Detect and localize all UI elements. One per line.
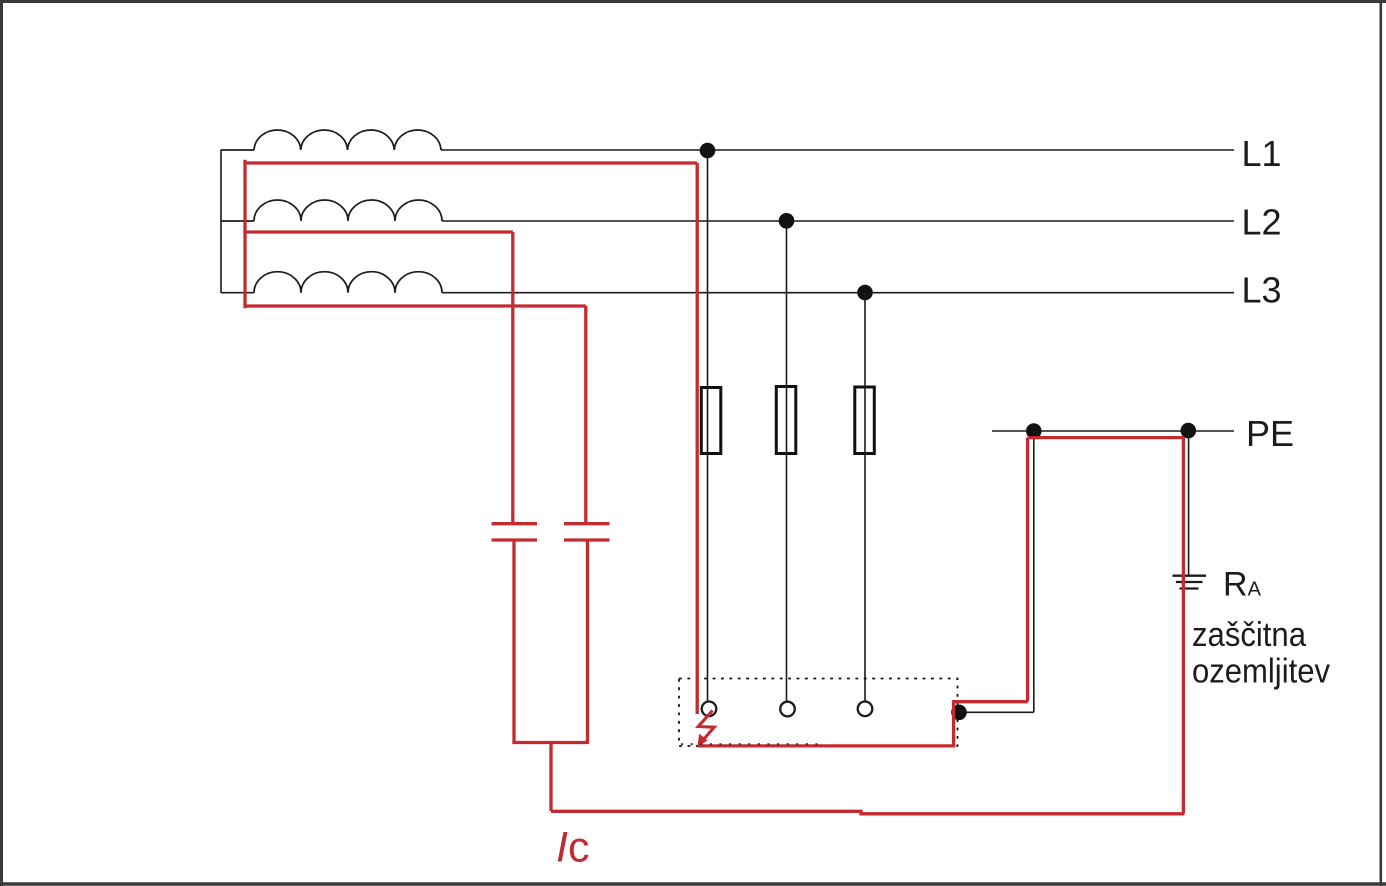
winding W1 (L1 secondary coil) xyxy=(221,130,441,150)
wire red earth riser xyxy=(1182,438,1185,814)
wire L3 line xyxy=(442,292,1234,294)
fuse F3 xyxy=(855,387,875,454)
wire red PE drop xyxy=(1026,438,1029,702)
terminal 3 circle xyxy=(858,702,873,717)
svg-text:ozemljitev: ozemljitev xyxy=(1192,653,1330,691)
winding W2 (L2 secondary coil) xyxy=(221,200,442,221)
node L3 tap junction dot xyxy=(857,285,873,301)
wire Ic bottom return xyxy=(551,811,1184,814)
ground electrode symbol xyxy=(1173,576,1207,589)
wire L3 drop to fuse F3 xyxy=(864,293,866,702)
winding W3 (L3 secondary coil) xyxy=(221,272,442,293)
wire PE line xyxy=(992,430,1234,432)
left bus vertical wire xyxy=(220,150,222,294)
wire C2 bottom lead xyxy=(586,540,589,743)
appliance enclosure (dotted box) xyxy=(679,679,958,747)
svg-text:L1: L1 xyxy=(1242,133,1282,174)
appliance enclosure bottom dotted edge (over red) xyxy=(681,743,822,745)
node PE junction dot B xyxy=(1181,423,1197,439)
svg-text:zaščitna: zaščitna xyxy=(1192,616,1306,654)
wire capacitor bottom bar xyxy=(512,741,589,744)
wire red chassis horizontal xyxy=(954,700,1028,703)
fault arrow head xyxy=(697,734,707,747)
terminal 1 circle xyxy=(702,702,717,717)
wire L1 line xyxy=(441,149,1234,151)
wire L2 line xyxy=(442,220,1234,222)
wire Ic drop xyxy=(549,743,552,812)
wire PE drop to earth electrode xyxy=(1188,431,1190,577)
wire red enclosure bottom xyxy=(698,744,956,747)
wire C1 bottom lead xyxy=(512,540,515,743)
capacitor C1 xyxy=(492,524,538,540)
svg-text:Ic: Ic xyxy=(556,824,589,872)
node L2 tap junction dot xyxy=(779,213,795,229)
fuse F2 xyxy=(776,387,796,454)
svg-text:PE: PE xyxy=(1246,413,1294,454)
wire L2 drop to fuse F2 xyxy=(786,221,788,702)
fault arrow (zigzag bolt) xyxy=(698,711,714,744)
wire L1 drop to fuse F1 xyxy=(707,151,709,702)
wire red chassis drop xyxy=(952,700,955,746)
wire chassis horizontal xyxy=(959,711,1034,713)
wire PE drop to chassis xyxy=(1033,431,1035,712)
node chassis junction dot xyxy=(951,705,967,721)
capacitor C2 xyxy=(564,524,610,540)
wire red below PE xyxy=(1028,436,1185,439)
wire red from L2 to capacitor C1 xyxy=(245,232,513,523)
node PE junction dot A xyxy=(1026,423,1042,439)
wire red fault path from L1 xyxy=(245,160,697,714)
node L1 tap junction dot xyxy=(700,143,716,159)
svg-text:L3: L3 xyxy=(1242,270,1282,311)
fuse F1 xyxy=(701,388,721,454)
wire red from L3 to capacitor C2 xyxy=(245,306,586,523)
terminal 2 circle xyxy=(780,702,795,717)
svg-text:L2: L2 xyxy=(1242,202,1282,243)
